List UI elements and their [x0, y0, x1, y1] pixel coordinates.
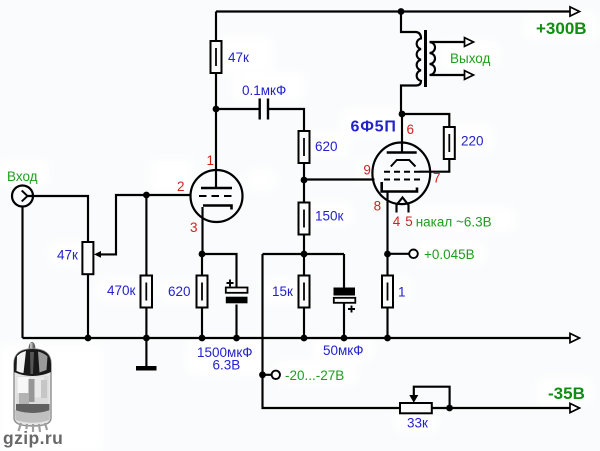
resistor R 47k: [211, 41, 222, 73]
wire grid left: [99, 195, 191, 254]
svg-text:Выход: Выход: [450, 51, 491, 66]
resistor 1: [382, 276, 393, 308]
capacitor 50мкФ: [334, 288, 356, 313]
wire 470k leads: [145, 195, 147, 338]
wire pentode cathode down: [386, 192, 388, 255]
resistor 470к: [141, 276, 153, 308]
photo backdrop: [0, 346, 104, 451]
resistor R 47k top lead: [215, 12, 217, 42]
wire 15k leads: [303, 254, 305, 338]
node grid-470k junction: [143, 192, 150, 199]
svg-text:150к: 150к: [315, 209, 344, 224]
arrow -35V: [570, 403, 580, 412]
terminal +0.045V circle: [409, 250, 418, 259]
svg-text:620: 620: [315, 139, 338, 154]
svg-text:4: 4: [393, 214, 401, 229]
ground: [145, 338, 147, 366]
svg-text:gzip.ru: gzip.ru: [3, 428, 63, 448]
node anode junction: [213, 106, 220, 113]
wire tap stub: [388, 253, 410, 255]
svg-text:+0.045В: +0.045В: [424, 247, 475, 262]
wire 50uF bottom lead: [343, 303, 345, 338]
node pentode cathode junction: [384, 251, 391, 258]
resistor 620 cathode: [197, 276, 208, 308]
resistor 150к: [299, 203, 310, 235]
node -20V tap: [259, 371, 266, 378]
svg-text:2: 2: [177, 179, 185, 194]
transformer core: [424, 30, 427, 87]
svg-text:Вход: Вход: [7, 169, 38, 184]
node rail-470k junction: [143, 335, 150, 342]
svg-text:1: 1: [398, 285, 406, 300]
wire cathode down: [201, 207, 203, 254]
wire 150k leads: [303, 180, 305, 254]
potentiometer 47к: [82, 242, 93, 274]
node rail-pot junction: [85, 335, 92, 342]
svg-text:-20...-27В: -20...-27В: [285, 368, 344, 383]
transformer T1 secondary: [430, 42, 436, 75]
svg-text:220: 220: [461, 134, 484, 149]
wire 620 to grid node: [303, 163, 305, 180]
wire to coupling cap: [216, 108, 259, 110]
wire bias net: [263, 254, 401, 408]
svg-text:0.1мкФ: 0.1мкФ: [242, 83, 286, 98]
pentode heater: [397, 198, 409, 213]
resistor 15к: [299, 276, 310, 308]
wire to -35V: [432, 407, 571, 409]
node top junction: [398, 8, 405, 15]
svg-text:6: 6: [407, 122, 415, 137]
node rail-620 junction: [199, 335, 206, 342]
wire pot bottom: [87, 274, 89, 339]
svg-text:6Ф5П: 6Ф5П: [351, 119, 397, 136]
wire secondary bottom: [430, 74, 465, 76]
resistor 620 coupling: [299, 131, 310, 163]
svg-text:8: 8: [374, 199, 382, 214]
wiper strap: [414, 387, 450, 408]
triode V1 circle: [191, 170, 243, 222]
svg-text:3: 3: [190, 220, 198, 235]
wiper arrowhead: [94, 251, 101, 258]
node strap junction: [446, 405, 453, 412]
node mid junction: [301, 251, 308, 258]
transformer T1 primary: [401, 12, 421, 115]
svg-text:1: 1: [207, 153, 215, 168]
capacitor 0.1мкФ: [260, 99, 268, 120]
svg-text:470к: 470к: [107, 283, 136, 298]
wire input down: [21, 207, 23, 339]
svg-text:620: 620: [168, 284, 191, 299]
wire cap to 620: [269, 109, 304, 131]
svg-text:9: 9: [363, 163, 371, 178]
pentode cathode: [382, 182, 417, 192]
potentiometer 33к: [400, 403, 432, 413]
svg-text:33к: 33к: [407, 416, 428, 431]
pentode beam plates: [391, 160, 416, 167]
svg-text:5: 5: [405, 214, 413, 229]
svg-text:+300В: +300В: [536, 19, 587, 38]
pentode screen grid dashes: [384, 171, 420, 173]
triode grid dashes: [199, 195, 233, 197]
bottom rail: [23, 337, 571, 339]
wire cathode to cap: [202, 254, 237, 288]
wire input to pot: [28, 196, 89, 241]
capacitor 1500мкФ: [226, 280, 248, 304]
pentode anode lead: [401, 114, 403, 152]
wire anode line: [215, 73, 217, 187]
arrow +300V: [570, 7, 580, 16]
node rail-1500uF junction: [233, 335, 240, 342]
wire 1 leads: [386, 254, 388, 338]
svg-text:47к: 47к: [228, 50, 249, 65]
svg-text:50мкФ: 50мкФ: [323, 343, 363, 358]
wire 620b leads: [201, 254, 203, 338]
terminal -20V circle: [272, 371, 280, 379]
arrow output bottom: [465, 71, 474, 80]
tube photo: [14, 342, 51, 432]
svg-text:47к: 47к: [57, 248, 78, 263]
triode cathode: [203, 206, 232, 210]
node rail-15k junction: [301, 335, 308, 342]
wire secondary top: [430, 41, 465, 43]
wire screen to 220: [420, 157, 450, 172]
pentode anode plate: [387, 151, 417, 154]
wire grid to pentode: [304, 178, 375, 180]
node cathode junction: [199, 251, 206, 258]
svg-text:накал ~6.3В: накал ~6.3В: [416, 215, 492, 230]
node grid junction: [301, 177, 308, 184]
node rail-R1 junction: [384, 335, 391, 342]
watermark gzip.ru: [3, 428, 63, 448]
arrow rail end: [570, 333, 580, 342]
wire 220 top: [402, 114, 449, 127]
wiper arrowhead: [409, 395, 418, 403]
arrow output top: [465, 38, 474, 47]
svg-text:15к: 15к: [272, 284, 293, 299]
wire tap stub: [263, 374, 272, 376]
top rail wire: [216, 10, 570, 12]
pentode control grid dashes: [384, 179, 420, 181]
wire 1500uF bottom lead: [235, 305, 237, 339]
node rail-50uF junction: [341, 335, 348, 342]
pentode V2 circle: [372, 143, 430, 205]
resistor 220: [444, 127, 455, 159]
svg-text:6.3В: 6.3В: [213, 358, 241, 373]
triode anode plate: [201, 187, 232, 190]
node transformer junction: [399, 111, 406, 118]
svg-text:-35В: -35В: [548, 384, 585, 403]
input jack: [12, 186, 33, 207]
